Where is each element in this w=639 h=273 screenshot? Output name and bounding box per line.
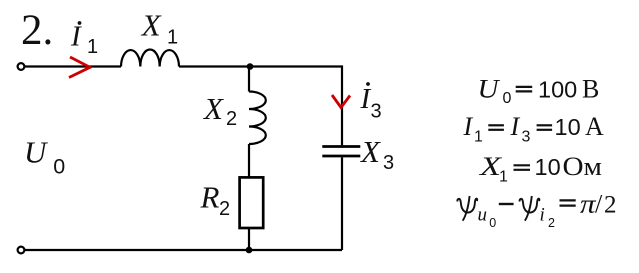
svg-text:i: i xyxy=(540,205,545,226)
svg-text:I: I xyxy=(463,112,474,141)
svg-text:0: 0 xyxy=(503,90,512,107)
svg-text:100: 100 xyxy=(538,76,577,102)
svg-text:2: 2 xyxy=(548,216,555,230)
svg-text:Ом: Ом xyxy=(563,152,603,181)
svg-text:1: 1 xyxy=(87,36,98,58)
svg-text:2: 2 xyxy=(604,192,617,219)
svg-text:I: I xyxy=(70,21,82,53)
svg-text:1: 1 xyxy=(167,26,178,48)
svg-text:3: 3 xyxy=(522,129,531,146)
svg-text:R: R xyxy=(200,180,220,215)
svg-text:1: 1 xyxy=(474,129,483,146)
svg-text:/: / xyxy=(595,190,603,219)
svg-text:I: I xyxy=(510,112,521,141)
svg-text:2: 2 xyxy=(219,198,230,220)
svg-text:X: X xyxy=(202,91,224,126)
svg-text:А: А xyxy=(585,112,604,141)
svg-text:10: 10 xyxy=(535,154,561,180)
svg-text:0: 0 xyxy=(489,216,496,230)
svg-text:U: U xyxy=(478,74,501,103)
svg-text:X: X xyxy=(359,134,381,169)
svg-text:В: В xyxy=(582,74,599,103)
svg-text:1: 1 xyxy=(499,169,508,186)
svg-text:3: 3 xyxy=(383,152,394,174)
svg-text:10: 10 xyxy=(555,114,581,140)
svg-text:2: 2 xyxy=(226,108,237,130)
svg-text:u: u xyxy=(478,205,488,226)
svg-text:3: 3 xyxy=(371,100,382,122)
svg-text:U: U xyxy=(24,134,49,169)
svg-text:2.: 2. xyxy=(21,7,53,54)
svg-text:X: X xyxy=(140,8,162,43)
svg-text:0: 0 xyxy=(53,155,65,179)
